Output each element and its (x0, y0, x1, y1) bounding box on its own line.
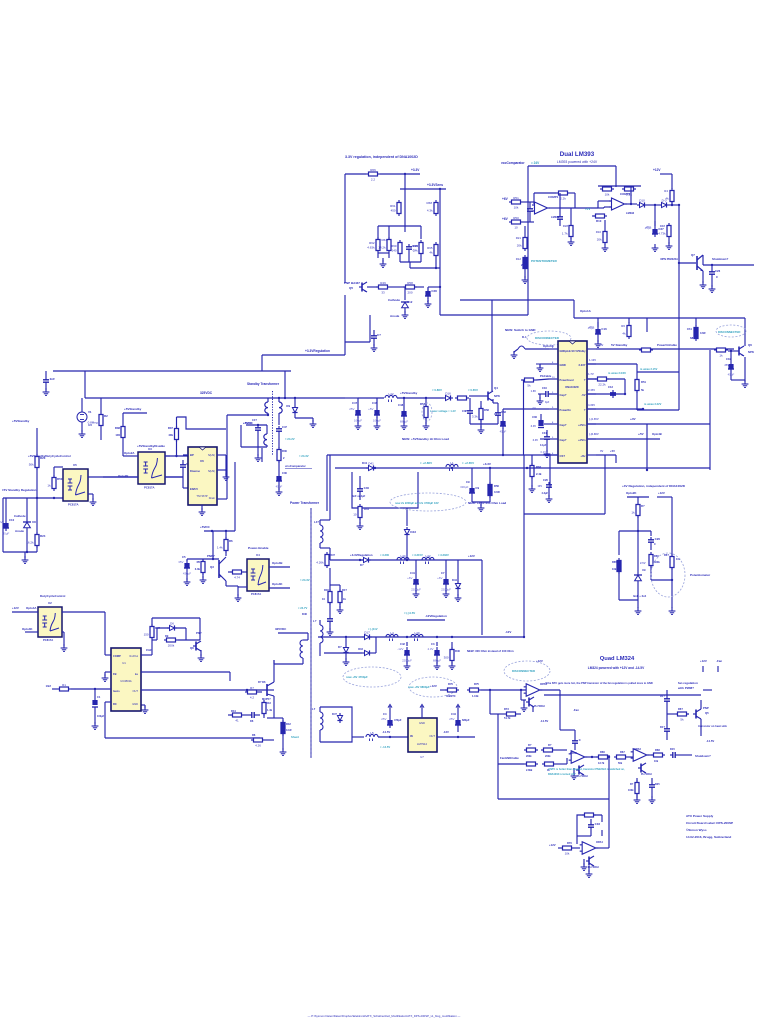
svg-text:≈ 3.332V: ≈ 3.332V (438, 553, 449, 557)
wire sw gnd (511, 351, 518, 358)
node Opto2K b (626, 491, 637, 495)
svg-text:+12V: +12V (430, 684, 437, 688)
svg-text:4k: 4k (429, 250, 433, 254)
svg-text:R68: R68 (426, 201, 432, 205)
mosfet Q2 (258, 660, 274, 713)
svg-text:L42: L42 (388, 392, 393, 396)
svg-text:+6V: +6V (502, 197, 509, 201)
svg-text:2: 2 (283, 456, 285, 460)
wire misc drops (634, 794, 656, 803)
wire tl431 stem (404, 287, 406, 300)
svg-text:+12V: +12V (658, 491, 665, 495)
wire tny drain (217, 414, 269, 499)
svg-text:LM7912: LM7912 (417, 742, 428, 746)
svg-text:≈ 24.3V: ≈ 24.3V (300, 578, 310, 582)
wire t1w3 loop (320, 707, 352, 742)
node Opto1K (543, 344, 555, 348)
wire poweron pin (503, 408, 549, 410)
svg-text:45µF: 45µF (3, 532, 10, 536)
capacitor C10 (0, 498, 15, 536)
svg-text:Opto4A: Opto4A (26, 606, 37, 610)
capacitor C9 (460, 468, 479, 502)
note fan regulation (677, 681, 698, 690)
inductor L4 (386, 631, 398, 641)
svg-text:R52: R52 (523, 373, 529, 377)
svg-text:DutyCycleControl: DutyCycleControl (40, 594, 66, 598)
svg-text:10: 10 (353, 512, 357, 516)
resistor R53 2.2k (556, 187, 570, 201)
resistor R41 (353, 504, 369, 524)
wire pot row (651, 579, 673, 581)
diode D9 (286, 398, 297, 418)
node 2.5V (640, 561, 646, 572)
capacitor C19 (725, 350, 735, 377)
transistor Q6 NPN (728, 343, 754, 356)
svg-text:+3V Regulation, independent of: +3V Regulation, independent of DNA1002D (622, 484, 686, 488)
svg-text:Opto4B: Opto4B (652, 432, 662, 436)
diode D18b (660, 712, 670, 740)
wire r9 row (152, 634, 200, 647)
wire opa3 out (647, 754, 653, 756)
svg-text:+/2Vin: +/2Vin (578, 439, 586, 442)
wire tny bp (183, 454, 188, 456)
svg-text:≈ 24.3V: ≈ 24.3V (299, 454, 309, 458)
wire 3vreg bottom (619, 600, 638, 608)
capacitor C3p (462, 398, 473, 424)
svg-text:L7: L7 (312, 707, 316, 711)
transformer T2 primary (265, 398, 268, 416)
svg-text:R70: R70 (567, 841, 572, 845)
svg-text:R44: R44 (231, 709, 236, 713)
svg-text:10k: 10k (612, 567, 617, 571)
svg-text:R40: R40 (455, 649, 460, 653)
wire 325 bus (85, 391, 265, 398)
capacitor D25 (649, 778, 660, 794)
node -14.5V lm (540, 714, 548, 723)
svg-text:R67: R67 (643, 343, 649, 347)
wire 3vreg mid (619, 530, 651, 555)
capacitor C41 (407, 560, 421, 592)
svg-text:-12VRegulation: -12VRegulation (425, 614, 447, 618)
resistor R56b (488, 468, 500, 502)
svg-text:4.73k: 4.73k (658, 231, 666, 235)
svg-text:0.8Meg: 0.8Meg (88, 420, 98, 424)
svg-text:PL7400H: PL7400H (588, 866, 599, 869)
svg-text:40kNTC: 40kNTC (446, 694, 456, 698)
node +12V opa4 (549, 843, 556, 847)
node 325VDC b (275, 627, 287, 631)
svg-text:?: ? (584, 378, 586, 382)
transistor Q5 PNP (693, 706, 709, 719)
ellipse pot (651, 553, 711, 597)
terminal u7 gnd (420, 704, 424, 710)
svg-text:C3P: C3P (462, 409, 467, 413)
wire m12reg rail (407, 620, 445, 635)
diode D16b (324, 637, 376, 656)
resistor R65b (621, 322, 631, 339)
ground u5 (90, 498, 97, 505)
svg-text:C48: C48 (398, 403, 404, 407)
resistor R76 (524, 743, 538, 758)
svg-text:LM393: LM393 (626, 211, 635, 215)
svg-text:C44: C44 (451, 712, 456, 716)
wire bottom join (26, 533, 28, 553)
svg-text:Shutdown?: Shutdown? (695, 754, 711, 758)
node vcoComparator2 (285, 464, 312, 469)
diode D18 (338, 637, 349, 665)
resistor R37 (168, 417, 226, 456)
svg-text:LM393 powered with +24V: LM393 powered with +24V (557, 160, 598, 164)
svg-text:GND: GND (419, 721, 425, 725)
wire r50 top (37, 467, 63, 498)
svg-text:33: 33 (381, 290, 385, 294)
capacitor C47 (349, 398, 377, 423)
ground q11 (521, 700, 528, 711)
diode D43 (404, 527, 416, 537)
svg-text:L?: L? (313, 619, 317, 623)
node approx 065 (468, 388, 478, 392)
wire bus drop (84, 371, 86, 398)
svg-text:R53: R53 (560, 187, 566, 191)
resistor R62 (367, 237, 380, 253)
svg-text:R6: R6 (229, 539, 233, 543)
wire sb bus3 (397, 397, 443, 399)
svg-text:R51: R51 (513, 196, 519, 200)
wire left leg (345, 174, 366, 283)
svg-text:POTENTIOMETER: POTENTIOMETER (531, 259, 558, 263)
wire 2.23 row (587, 358, 637, 377)
svg-text:U6: U6 (200, 459, 204, 463)
node Opto2K (118, 474, 129, 478)
resistor R44 (330, 585, 347, 605)
capacitor C16 (588, 322, 607, 337)
ground divider (380, 260, 387, 267)
resistor R42 shunt (281, 720, 299, 739)
resistor R78 (498, 750, 538, 772)
svg-text:330µF: 330µF (460, 485, 468, 489)
svg-text:D?: D? (360, 563, 364, 567)
wire cap pin row (538, 394, 558, 399)
svg-text:+/5v: +/5v (580, 454, 586, 458)
wire v1 (404, 174, 406, 232)
svg-text:R57: R57 (626, 182, 632, 186)
svg-text:U9: U9 (642, 568, 646, 572)
svg-text:+5VStandby: +5VStandby (12, 419, 30, 423)
terminal c4 (388, 704, 392, 710)
capacitor C47a (276, 425, 287, 448)
svg-text:25V: 25V (381, 717, 386, 721)
svg-text:R38: R38 (115, 426, 121, 430)
node approx 1V (585, 207, 590, 211)
svg-text:3mF + 2x4: 3mF + 2x4 (633, 594, 647, 598)
resistor R71 NTC (440, 682, 459, 698)
svg-text:Opto2A: Opto2A (124, 451, 135, 455)
svg-text:PC817A: PC817A (68, 503, 79, 507)
svg-text:L5: L5 (370, 731, 374, 735)
wire left cluster (3, 498, 37, 552)
resistor R51 (509, 196, 523, 210)
wire comp2 drop (615, 166, 617, 187)
wire aux loop (241, 425, 267, 461)
svg-text:±5V Standby Regulation: ±5V Standby Regulation (2, 488, 36, 492)
capacitor C28 (425, 287, 437, 304)
resistor R7b (245, 686, 259, 700)
node +12V c (658, 491, 665, 495)
resistor R58b (472, 401, 490, 424)
svg-text:1k: 1k (47, 483, 51, 487)
svg-text:RC: RC (113, 702, 117, 706)
svg-text:+3.3VSens: +3.3VSens (427, 183, 443, 187)
node Q3AL (0, 0, 1, 1)
wire +3.3V rail (380, 173, 420, 175)
svg-text:R65: R65 (612, 560, 617, 564)
svg-text:-14.5V: -14.5V (382, 730, 390, 734)
svg-text:R?: R? (641, 504, 645, 508)
svg-text:15nF: 15nF (146, 649, 152, 652)
wire fan top (703, 666, 718, 690)
svg-text:51.7k: 51.7k (504, 716, 511, 720)
svg-text:DNA1002D: DNA1002D (565, 385, 578, 389)
svg-text:1k: 1k (719, 353, 723, 357)
node +5VStandby left (12, 419, 30, 423)
svg-text:2.23Y: 2.23Y (578, 363, 585, 367)
wire 527 drop (523, 636, 525, 638)
resistor R59b (455, 391, 469, 400)
node +3.3VRegulation (305, 349, 330, 353)
ground v1 (79, 430, 86, 437)
svg-text:PowerOnCable: PowerOnCable (657, 343, 677, 347)
svg-text:R48: R48 (660, 224, 666, 228)
wire v2 (439, 189, 441, 287)
svg-text:R4?: R4? (342, 588, 347, 592)
svg-text:R10: R10 (596, 230, 602, 234)
svg-text:≈ 24.7V: ≈ 24.7V (298, 606, 307, 610)
svg-text:©Simon Wyss: ©Simon Wyss (686, 828, 707, 832)
wire 3vreg tops (627, 497, 672, 608)
svg-text:≈ +2.65V: ≈ +2.65V (462, 461, 474, 465)
svg-text:PC817A: PC817A (251, 592, 261, 596)
svg-text:D46: D46 (302, 612, 307, 616)
svg-text:150: 150 (144, 632, 149, 636)
svg-text:R? D6: R? D6 (258, 680, 266, 684)
svg-text:V1: V1 (88, 410, 92, 414)
optocoupler U3 PC817A (138, 447, 165, 490)
svg-text:+/2V: +/2V (630, 417, 636, 421)
svg-text:4.2: 4.2 (250, 695, 255, 699)
svg-text:≈ -14.5V: ≈ -14.5V (380, 745, 390, 749)
svg-text:+6V: +6V (407, 576, 412, 580)
svg-text:PL7400H: PL7400H (534, 705, 545, 708)
transformer T2 sec1 (278, 397, 282, 425)
svg-text:D6: D6 (250, 719, 254, 723)
resistor R79 (542, 758, 567, 772)
node +5VDC2 (200, 525, 211, 529)
wire d43 stem (406, 508, 408, 526)
svg-text:D4?: D4? (332, 712, 337, 716)
capacitor C48 (398, 398, 408, 424)
wire q7 base (678, 204, 696, 372)
wire corner2 (524, 455, 605, 636)
capacitor C17 (180, 460, 190, 476)
resistor R20 (592, 214, 607, 223)
ground c9 r56 (472, 502, 490, 511)
capacitor C3c (0, 0, 1, 1)
svg-text:DISCONNECTED: DISCONNECTED (535, 336, 560, 340)
wire right drop 647 (646, 424, 648, 471)
svg-text:4k: 4k (622, 331, 626, 335)
node -12V label (505, 630, 511, 634)
label Anode left (15, 529, 24, 533)
resistor R10 20k (596, 220, 607, 245)
shunt reg U9 TL431 (634, 531, 642, 600)
svg-text:1k: 1k (343, 597, 346, 601)
svg-text:if the NTC gets more hot, the: if the NTC gets more hot, the PNP transi… (545, 681, 653, 685)
node 3mf (633, 594, 647, 598)
svg-text:C20: C20 (543, 478, 548, 482)
wire m5 bus (352, 736, 364, 738)
resistor R56 10k (600, 182, 614, 196)
svg-text:20k: 20k (517, 243, 522, 247)
svg-text:20k: 20k (597, 237, 602, 241)
wire loop rect (352, 468, 418, 508)
svg-text:NPN: NPN (748, 350, 754, 354)
wire xfmr top (284, 371, 286, 399)
ground q6 (742, 357, 749, 387)
wire shutdown2 (678, 754, 692, 756)
svg-text:4.26k: 4.26k (316, 560, 324, 564)
wire right join (435, 258, 437, 269)
svg-text:Quad LM324: Quad LM324 (600, 656, 635, 662)
svg-text:R1: R1 (62, 683, 66, 687)
svg-text:U3: U3 (148, 447, 152, 451)
svg-text:C30: C30 (282, 471, 287, 475)
node +6V a (502, 197, 509, 201)
svg-text:2.89k: 2.89k (526, 769, 533, 772)
capacitor C26b (709, 265, 721, 279)
svg-text:-12V: -12V (505, 630, 511, 634)
node approx247 (298, 606, 307, 616)
wire gnd pin (536, 364, 549, 371)
node FanGNDCable (500, 756, 519, 760)
capacitor C30b (276, 471, 288, 489)
wire sense rail (400, 188, 446, 190)
note NEW 5VStandby load (402, 437, 449, 441)
ellipse note caps (390, 493, 466, 511)
svg-text:L1: L1 (450, 461, 454, 465)
resistor R2 (88, 398, 109, 440)
svg-text:Shunt: Shunt (291, 735, 299, 739)
node -12VRegulation (404, 611, 447, 618)
resistor R63 680k (687, 325, 706, 341)
svg-text:TNY267P: TNY267P (196, 494, 208, 498)
node approx -11 (368, 627, 378, 631)
note heat sink (698, 724, 727, 728)
svg-text:NEW: 300 Ohm instead of 100 Oh: NEW: 300 Ohm instead of 100 Ohm (467, 649, 514, 653)
ground c40 (357, 522, 364, 529)
svg-text:D16: D16 (445, 391, 451, 395)
svg-text:C7: C7 (441, 571, 445, 575)
ground tny right (223, 473, 230, 480)
ellipse note c7 (408, 677, 457, 697)
svg-text:-12V: -12V (443, 730, 449, 734)
svg-text:OPA4: OPA4 (540, 682, 548, 686)
svg-text:C: C (579, 738, 582, 742)
ground c42 (404, 658, 411, 669)
node +12V lm1 (430, 684, 437, 688)
wire 5vdc bus (204, 448, 262, 532)
svg-text:5k: 5k (527, 383, 531, 387)
svg-text:R62: R62 (718, 342, 724, 346)
wire 4.30 row (587, 402, 662, 409)
svg-text:+12V: +12V (468, 554, 475, 558)
node +Fan (540, 690, 579, 712)
svg-text:PNP?: PNP? (207, 554, 215, 558)
resistor R67b (614, 750, 628, 765)
credits (686, 814, 733, 839)
svg-text:10k: 10k (514, 205, 519, 209)
wire pg row (521, 379, 549, 455)
capacitor C27 (645, 205, 664, 237)
wire lm393 bottom bus (574, 318, 745, 343)
resistor R64 pot (664, 552, 681, 570)
wire u7 out (437, 736, 475, 738)
svg-text:OUT: OUT (429, 734, 435, 738)
ground 3vreg2 (669, 607, 676, 614)
svg-text:R6: R6 (235, 564, 239, 568)
svg-text:Opto4B: Opto4B (272, 561, 282, 565)
ground c5 (184, 571, 191, 585)
wire q7 collector (703, 255, 754, 266)
wire d9 out (295, 418, 316, 427)
svg-text:R43: R43 (266, 701, 271, 705)
label Cathode left (14, 514, 26, 518)
svg-text:CS?: CS? (560, 454, 566, 458)
svg-text:m umax 2.15V: m umax 2.15V (640, 367, 658, 371)
svg-text:4.3µF: 4.3µF (542, 492, 549, 495)
inductor L40 (411, 631, 423, 641)
wire 325 stub (278, 633, 308, 640)
svg-text:≈ (-)4.5V: ≈ (-)4.5V (404, 611, 415, 615)
wire c27 stub (654, 204, 656, 226)
capacitor C4b (381, 710, 402, 728)
wire tny left (183, 455, 188, 488)
capacitor C26 (406, 244, 418, 252)
node approx 24.2V (285, 437, 295, 441)
ground 3vreg (635, 607, 642, 614)
node +5VDC label (243, 421, 254, 425)
wire fan loop right (703, 672, 718, 690)
resistor R43 (262, 690, 273, 718)
capacitor C42 (397, 642, 412, 663)
svg-text:2.2: 2.2 (371, 177, 376, 181)
svg-text:Lower voltage = 1.4V: Lower voltage = 1.4V (430, 409, 456, 413)
svg-text:R24: R24 (40, 534, 46, 538)
wire opa4 out (596, 847, 609, 849)
svg-text:0µF: 0µF (545, 401, 550, 404)
wire 3v3 bus (335, 467, 710, 469)
wire u7 gnd (421, 710, 423, 718)
node ±5V Standby Regulation (2, 488, 36, 492)
svg-text:NEW: Switch to GND: NEW: Switch to GND (505, 328, 536, 332)
svg-text:Power Transformer: Power Transformer (290, 501, 320, 505)
svg-text:C9: C9 (475, 486, 479, 490)
svg-text:+3.3V: +3.3V (483, 462, 491, 466)
svg-text:DISCONNECTED: DISCONNECTED (512, 669, 535, 673)
capacitor C11 (43, 371, 55, 385)
terminal c44 (456, 704, 460, 710)
wire r4 branch (660, 174, 672, 189)
ground tny (199, 505, 206, 515)
